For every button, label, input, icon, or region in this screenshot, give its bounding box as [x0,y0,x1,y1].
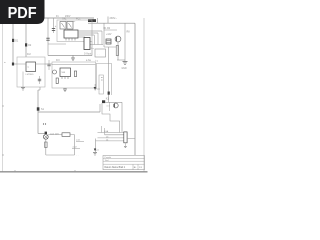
terminal stub N [107,17,109,24]
svg-text:PDF: PDF [8,5,37,22]
svg-text:IC2: IC2 [27,53,31,56]
wire rectifier bus [84,44,103,46]
title block outline [103,156,145,170]
junction dots [43,123,44,124]
svg-text:a 3a: a 3a [86,59,91,62]
connector wires [98,132,124,134]
wire base link [104,29,117,31]
resistor R5 [106,39,111,44]
wire earth drop [95,139,97,153]
diode LED2 [94,87,97,90]
title block row line 3 [103,163,145,165]
wire riser n1 [100,126,102,133]
wire drop b [97,33,99,45]
sheet background [0,0,149,198]
inductor L1 [88,19,96,22]
svg-text:PC1: PC1 [76,19,81,21]
svg-text:Bl.: Bl. [134,167,137,169]
LED1 [53,70,57,74]
frame left border [2,24,4,172]
title block row line 1 [103,158,145,160]
wire gnd link [117,59,125,61]
svg-text:TR1: TR1 [62,18,67,21]
sense box A [95,49,106,57]
driver box outline [96,64,111,96]
wire to controller [45,63,52,65]
resistor R3 [74,71,76,77]
wire IC2 pins [17,63,26,65]
ground IC2 [22,72,24,88]
svg-text:Projekt: Projekt [105,156,112,159]
switch S1 [37,107,40,110]
wire controller top bus [52,64,96,66]
diode D2 [25,43,27,46]
diode D1 [12,39,14,42]
transformer TR1 [60,22,66,30]
ground right [123,61,128,63]
controller block outline [52,62,96,88]
frame bottom border [0,171,148,173]
IC U1 [64,30,78,38]
wire +12V branch [103,23,105,47]
resistor R7 [116,46,118,56]
wire Q1 emitter [117,42,119,60]
svg-text:Titel: Titel [105,159,109,162]
svg-text:R1 R2: R1 R2 [104,28,111,30]
left regulator block outline [17,57,45,87]
svg-text:LM7805: LM7805 [26,74,35,76]
wire Q2 base drop [109,102,111,111]
contact K1.1 [62,133,70,137]
lamp LA1 [43,134,48,139]
diode D3 [12,63,14,66]
ground under connector [124,145,127,147]
diode D5 [108,92,110,95]
wire contact left [48,134,62,136]
wire staircase [102,103,120,132]
wire mains top right [88,22,135,24]
resistor R9 [45,139,47,155]
connector X1 [124,132,127,143]
stub net A [76,141,84,143]
wire mains step [97,18,99,23]
transistor Q2 [113,103,118,108]
wire input phase [12,24,14,64]
ground earth [93,152,97,154]
frame tick mark [14,170,16,172]
wire Q2 collector [121,102,123,132]
wire secondary bottom bus [48,55,92,57]
wire mains top left [44,17,94,19]
IC3 body [60,68,71,77]
transistor Q1 [115,36,121,42]
stub net B [72,148,80,150]
ground controller [64,88,66,89]
svg-text:+12V: +12V [106,34,112,36]
wire relay to switch bus [99,104,101,112]
driver inner box [99,75,103,94]
title block divider [132,164,134,170]
terminal mark [45,132,47,134]
wire left drop [39,87,41,90]
wire aux link [48,43,66,45]
pin stubs U1 [65,38,67,41]
marks in driver box [101,77,103,79]
diode arrow [94,149,96,152]
capacitor C1 [47,18,49,56]
svg-text:0 Vout: 0 Vout [84,52,92,56]
wire under connector [124,143,126,146]
wire input neutral [25,24,27,57]
wire into block left [13,63,17,65]
pin stubs IC3 [61,77,63,80]
optocoupler PC1 [84,38,90,50]
wire drop a [101,31,103,45]
relay K1 coil [102,100,105,103]
bus lines U1 to opto [78,30,102,32]
wire block right drop [91,42,93,56]
capacitor C3 [48,60,50,70]
wire bias vertical [124,23,126,61]
capacitor C4 [39,76,41,84]
wire riser n2 [104,128,106,135]
svg-text:Datum Name Blatt 1: Datum Name Blatt 1 [105,166,126,169]
wire relay feed [108,47,110,102]
svg-text:230V~: 230V~ [110,17,118,20]
wire relay row [105,101,122,103]
wire bottom return [46,154,75,156]
wire contact right drop [70,134,75,136]
wire right bus vertical [134,23,136,155]
IC2 body [26,62,36,72]
wire long horizontal [38,111,100,113]
title block row line 2 [103,160,145,162]
ground secondary [72,56,74,59]
PDF badge [0,0,45,24]
resistor R2 [56,78,58,84]
wire lamp feed [38,133,45,135]
wire connector to bus [127,138,135,140]
capacitor C2 [53,18,55,33]
wire link y47 [104,46,117,48]
frame tick mark left [2,154,4,156]
wire drop c [93,35,95,45]
converter block outline [57,20,92,42]
svg-text:GND: GND [122,68,127,70]
frame right border [143,18,145,172]
